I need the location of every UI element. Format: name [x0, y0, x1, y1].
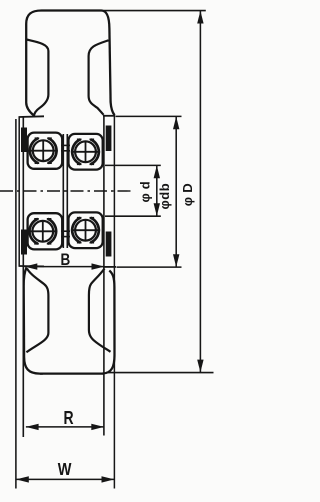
dimension W: arrow right [102, 476, 115, 482]
dimension phiD: arrow down [197, 360, 203, 373]
bearing outer race box bottom-left [28, 213, 63, 249]
dimension phid: top extension line [105, 164, 161, 166]
inner race stub lines top [61, 144, 70, 146]
bearing seal top-right [106, 126, 112, 152]
dimension phiD: top extension line [104, 10, 206, 12]
bearing ball bottom-right [71, 218, 100, 243]
dimension phidb: arrow up [173, 117, 179, 130]
wheel top tread inner web line left [26, 40, 48, 117]
hub right wall outer line / W extension right [113, 115, 115, 489]
hub left wall line [18, 117, 20, 266]
dimension phiD: arrow up [197, 11, 203, 24]
svg-text:φD: φD [180, 179, 195, 206]
dimension phiD: bottom extension line [106, 372, 214, 374]
bearing seal bottom-left [21, 230, 27, 255]
svg-text:B: B [61, 250, 71, 269]
dimension phid: arrow down [154, 203, 160, 216]
dimension B: dimension line [25, 266, 105, 268]
svg-text:W: W [58, 461, 72, 479]
dimension phidb: arrow down [173, 254, 179, 267]
dimension W: arrow left [16, 476, 29, 482]
hub top edge right segment [103, 115, 115, 117]
bearing seal top-left [21, 128, 27, 153]
wheel bottom tread outer outline left [24, 268, 43, 374]
hub bottom edge left segment [19, 265, 45, 267]
dimension W: dimension line [16, 478, 114, 480]
dimension R: arrow right [91, 424, 104, 430]
dimension phid: bottom extension line [105, 215, 161, 217]
axle centerline (dash-dot) [0, 190, 133, 192]
hub left wall outer line / W extension left [15, 119, 17, 489]
dimension phidb: bottom extension line [117, 266, 182, 268]
hub center spacer line right [66, 134, 68, 248]
bearing outer race box top-left [28, 133, 63, 169]
hub bottom edge right segment [103, 266, 116, 268]
wheel bottom edge [40, 372, 104, 374]
inner race stub lines bottom [61, 230, 70, 232]
dimension B: arrow left [25, 263, 38, 269]
hub top edge left segment [19, 115, 45, 118]
hub center spacer line left [62, 134, 64, 248]
dimension R: arrow left [26, 424, 39, 430]
wheel bottom tread inner web line right [89, 269, 111, 352]
dimension phidb: top extension line [116, 115, 182, 117]
bearing seal bottom-right [106, 232, 112, 257]
dimension R: dimension line [26, 426, 104, 428]
bearing outer race box bottom-right [69, 212, 103, 248]
bearing ball top-left [29, 138, 58, 163]
hub right wall inner line / B R extension right [103, 116, 105, 436]
dimension phid: dimension line [156, 166, 158, 216]
dimension phid: arrow up [154, 166, 160, 179]
bearing ball bottom-left [28, 219, 57, 244]
dimension phidb: dimension line [175, 117, 177, 267]
bearing ball top-right [71, 139, 100, 164]
wheel bottom tread inner web line left [26, 269, 48, 353]
dimension B: arrow right [92, 263, 105, 269]
wheel top tread inner web line right [89, 40, 109, 115]
wheel bottom tread outer outline right [102, 271, 114, 374]
hub left wall inner line / B R extension left [22, 117, 24, 437]
bearing outer race box top-right [69, 134, 103, 170]
wheel top tread outer outline [26, 11, 114, 116]
dimension phiD: dimension line [199, 11, 201, 372]
svg-text:R: R [64, 408, 74, 428]
svg-text:φd: φd [137, 177, 152, 202]
